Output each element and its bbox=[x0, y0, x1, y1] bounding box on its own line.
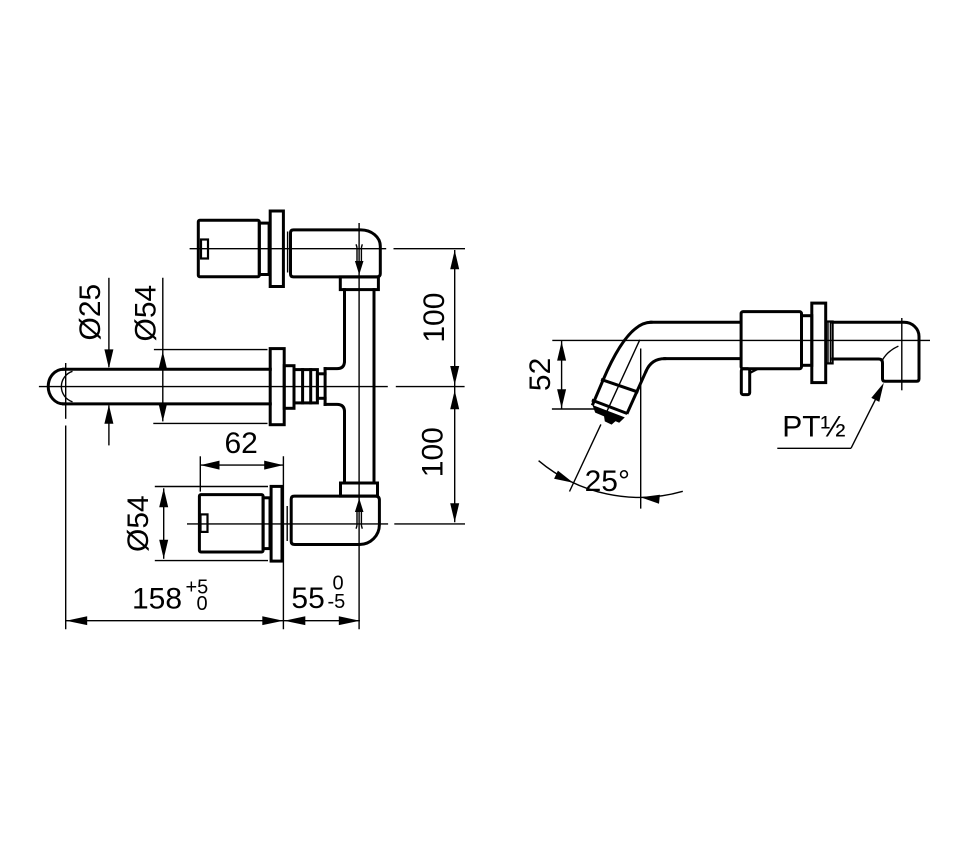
handle step top bbox=[259, 223, 269, 274]
flow arrow bottom bbox=[355, 498, 364, 529]
svg-text:PT½: PT½ bbox=[782, 411, 845, 444]
dimension 55 bbox=[284, 573, 360, 626]
valve body top bbox=[291, 230, 381, 277]
centerline vertical pipe bbox=[358, 223, 360, 629]
nozzle axis line bbox=[570, 340, 640, 492]
handle flange bottom bbox=[271, 486, 282, 561]
svg-text:62: 62 bbox=[225, 427, 258, 460]
side tube bbox=[651, 322, 741, 358]
handle step bottom bbox=[263, 498, 270, 549]
svg-text:25°: 25° bbox=[585, 465, 630, 498]
handle joint top bbox=[287, 232, 289, 273]
valve body bottom bbox=[291, 496, 379, 544]
handle notch bottom bbox=[201, 514, 208, 532]
handle joint bottom bbox=[286, 506, 288, 541]
spout bend bbox=[603, 322, 665, 380]
svg-text:Ø54: Ø54 bbox=[130, 285, 163, 342]
svg-text:0: 0 bbox=[197, 593, 208, 615]
dimension D25 bbox=[74, 278, 114, 446]
centerline spout bbox=[39, 386, 465, 388]
extension line spout end bbox=[65, 363, 67, 629]
spout wall flange bbox=[270, 349, 284, 425]
dimension 25 degrees bbox=[539, 461, 683, 504]
dimension D54 bottom handle bbox=[122, 487, 268, 561]
svg-text:100: 100 bbox=[417, 427, 450, 477]
side step bbox=[802, 316, 812, 366]
handle notch top bbox=[201, 240, 208, 259]
dimension 62 bbox=[200, 427, 283, 492]
flow arrow top bbox=[355, 244, 364, 274]
dimension 158 bbox=[66, 577, 360, 626]
svg-text:52: 52 bbox=[524, 358, 557, 391]
label PT half bbox=[777, 383, 884, 448]
centerline top handle bbox=[190, 248, 465, 250]
centerline supply leg bbox=[901, 318, 903, 390]
svg-text:100: 100 bbox=[418, 293, 451, 343]
vertical pipe bbox=[345, 290, 375, 483]
dimension line extension wall face bbox=[282, 456, 284, 629]
svg-text:-5: -5 bbox=[328, 591, 346, 613]
elbow neck top bbox=[340, 277, 378, 290]
elbow neck bottom bbox=[341, 483, 378, 496]
svg-text:Ø25: Ø25 bbox=[74, 284, 107, 341]
svg-text:158: 158 bbox=[132, 583, 182, 616]
spout tube bbox=[48, 369, 270, 404]
dimension 100 upper bbox=[418, 250, 459, 522]
tee connector bbox=[325, 361, 344, 412]
side valve tab bbox=[741, 369, 757, 395]
side flange bbox=[812, 303, 826, 383]
spout step bbox=[284, 366, 294, 409]
handle body bottom bbox=[199, 495, 263, 552]
centerline bottom handle bbox=[187, 523, 465, 525]
dimension 52 bbox=[524, 340, 598, 409]
nozzle bbox=[592, 371, 646, 424]
svg-text:55: 55 bbox=[291, 582, 324, 615]
handle flange top bbox=[270, 211, 283, 287]
dimension D54 spout bbox=[130, 278, 268, 424]
svg-text:Ø54: Ø54 bbox=[122, 495, 155, 552]
side nipple bbox=[826, 322, 833, 364]
side valve body bbox=[741, 312, 801, 369]
spout ribbed connector bbox=[294, 370, 325, 403]
side supply elbow bbox=[833, 322, 919, 381]
vertical reference line bbox=[640, 349, 642, 509]
handle body top bbox=[198, 220, 259, 276]
centerline side tube bbox=[552, 339, 930, 341]
dimension 100 lower bbox=[417, 390, 460, 522]
